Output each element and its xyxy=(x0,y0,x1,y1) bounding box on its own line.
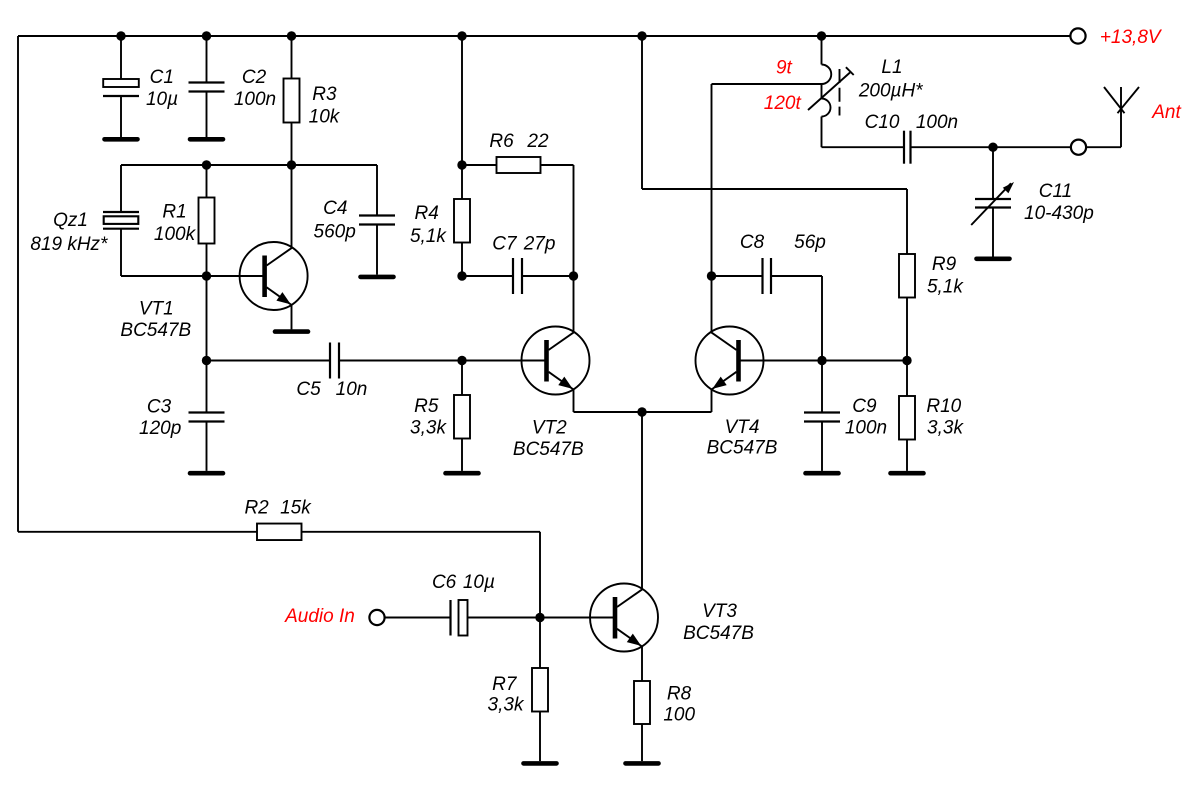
wire xyxy=(120,36,122,79)
resistor R10 xyxy=(899,396,915,440)
wire xyxy=(462,360,547,362)
svg-text:BC547B: BC547B xyxy=(513,439,584,460)
junction xyxy=(457,31,466,40)
label C6 xyxy=(432,572,457,593)
wire xyxy=(712,275,763,277)
label C4 xyxy=(323,198,347,219)
wire xyxy=(17,36,19,532)
svg-text:3,3k: 3,3k xyxy=(927,418,964,439)
wire xyxy=(291,36,293,79)
svg-text:R9: R9 xyxy=(932,254,957,275)
label R1 value xyxy=(154,224,197,245)
svg-text:R1: R1 xyxy=(162,202,186,223)
svg-text:3,3k: 3,3k xyxy=(488,695,525,716)
label R6 xyxy=(489,131,514,152)
wire xyxy=(206,422,208,471)
svg-text:100n: 100n xyxy=(234,89,276,110)
svg-text:C11: C11 xyxy=(1039,181,1072,202)
label C10 xyxy=(865,112,900,133)
junction xyxy=(569,271,578,280)
wire xyxy=(206,244,208,277)
wire xyxy=(906,440,908,471)
junction xyxy=(457,356,466,365)
wire xyxy=(339,360,462,362)
resistor R2 xyxy=(257,524,302,541)
label C1 xyxy=(150,67,174,88)
svg-text:C4: C4 xyxy=(323,198,347,219)
wire xyxy=(573,276,575,332)
resistor R7 xyxy=(532,668,548,712)
label R10 value xyxy=(927,418,964,439)
svg-text:VT3: VT3 xyxy=(702,601,737,622)
wire xyxy=(641,412,643,588)
svg-text:R6: R6 xyxy=(489,131,514,152)
label R7 xyxy=(492,674,518,695)
resistor R9 xyxy=(899,254,915,298)
label C5 value xyxy=(336,379,368,400)
label VT2 type xyxy=(513,439,584,460)
svg-text:100n: 100n xyxy=(845,418,887,439)
wire xyxy=(911,146,1071,148)
label Qz1 value xyxy=(30,234,108,255)
resistor R4 xyxy=(454,199,470,243)
wire xyxy=(120,96,122,137)
svg-text:9t: 9t xyxy=(776,58,793,79)
transistor VT3 BC547B xyxy=(590,584,658,652)
wire xyxy=(376,225,378,275)
junction xyxy=(902,356,911,365)
ground xyxy=(190,471,223,476)
wire xyxy=(574,411,712,413)
label VT2 xyxy=(532,418,567,439)
ground xyxy=(891,471,924,476)
label Audio In xyxy=(284,606,355,627)
label R6 value xyxy=(526,131,549,152)
label R3 xyxy=(312,84,337,105)
svg-text:C2: C2 xyxy=(242,67,267,88)
junction xyxy=(535,613,544,622)
label L1 xyxy=(881,57,902,78)
label C4 value xyxy=(314,222,356,243)
svg-text:200µH*: 200µH* xyxy=(858,81,923,102)
wire xyxy=(541,164,574,166)
svg-text:10µ: 10µ xyxy=(146,89,178,110)
wire xyxy=(573,165,575,276)
wire xyxy=(468,617,616,619)
wire xyxy=(1086,146,1121,148)
svg-text:100n: 100n xyxy=(916,112,958,133)
capacitor C1 (electrolytic) xyxy=(103,79,139,96)
label C8 value xyxy=(794,232,826,253)
ground xyxy=(524,761,557,766)
wire xyxy=(461,243,463,277)
label R7 value xyxy=(488,695,525,716)
label C9 xyxy=(852,396,877,417)
terminal +13.8V xyxy=(1070,28,1085,43)
svg-text:C1: C1 xyxy=(150,67,174,88)
label R2 xyxy=(244,498,269,519)
svg-text:5,1k: 5,1k xyxy=(410,226,447,247)
wire xyxy=(121,164,377,166)
capacitor C3 xyxy=(189,413,225,422)
junction xyxy=(116,31,125,40)
label R1 xyxy=(162,202,186,223)
label VT3 type xyxy=(683,623,754,644)
resistor R5 xyxy=(454,395,470,439)
svg-text:120p: 120p xyxy=(139,418,181,439)
capacitor C6 (electrolytic) xyxy=(451,600,468,636)
label R9 value xyxy=(927,276,964,297)
svg-text:560p: 560p xyxy=(314,222,356,243)
ground xyxy=(626,761,659,766)
transistor VT4 BC547B xyxy=(696,327,764,395)
wire xyxy=(906,189,908,254)
capacitor C5 xyxy=(330,343,339,379)
capacitor C10 xyxy=(904,131,911,164)
wire xyxy=(821,117,823,148)
wire xyxy=(641,646,643,681)
svg-text:BC547B: BC547B xyxy=(120,320,191,341)
wire xyxy=(711,390,713,413)
transistor VT1 BC547B xyxy=(240,242,308,310)
label R5 xyxy=(414,396,439,417)
label VT4 xyxy=(725,417,760,438)
wire xyxy=(642,188,907,190)
label C5 xyxy=(296,379,321,400)
ground xyxy=(446,471,479,476)
label Ant xyxy=(1151,102,1181,123)
junction xyxy=(202,356,211,365)
label C2 xyxy=(242,67,267,88)
svg-text:120t: 120t xyxy=(764,93,802,114)
label C6 value xyxy=(463,572,495,593)
label R5 value xyxy=(410,418,447,439)
junction xyxy=(637,407,646,416)
label VT4 type xyxy=(707,438,778,459)
wire xyxy=(539,618,541,669)
label C3 xyxy=(147,397,172,418)
label L1 value xyxy=(858,81,923,102)
junction xyxy=(707,271,716,280)
label R8 xyxy=(667,684,692,705)
C11 arrow xyxy=(971,182,1014,225)
label R4 xyxy=(415,203,439,224)
label VT3 xyxy=(702,601,737,622)
svg-text:R7: R7 xyxy=(492,674,518,695)
capacitor C2 xyxy=(189,83,225,92)
svg-text:VT1: VT1 xyxy=(139,299,174,320)
resistor R6 xyxy=(497,157,541,173)
junction xyxy=(202,271,211,280)
wire xyxy=(206,165,208,198)
svg-text:5,1k: 5,1k xyxy=(927,276,964,297)
svg-text:10-430p: 10-430p xyxy=(1024,203,1094,224)
svg-text:R5: R5 xyxy=(414,396,439,417)
svg-text:10µ: 10µ xyxy=(463,572,495,593)
crystal Qz1 xyxy=(103,212,139,229)
capacitor C8 xyxy=(763,258,772,294)
svg-text:22: 22 xyxy=(526,131,549,152)
label L1 tap 120t xyxy=(764,93,802,114)
svg-text:Audio In: Audio In xyxy=(284,606,355,627)
svg-text:VT4: VT4 xyxy=(725,417,760,438)
svg-text:L1: L1 xyxy=(881,57,902,78)
wire xyxy=(207,275,265,277)
svg-text:27p: 27p xyxy=(523,233,556,254)
ground xyxy=(806,471,839,476)
svg-text:100: 100 xyxy=(663,705,695,726)
label R2 value xyxy=(280,498,312,519)
wire xyxy=(906,361,908,397)
wire xyxy=(711,276,713,332)
wire xyxy=(206,36,208,83)
ground xyxy=(275,329,308,334)
wire xyxy=(376,165,378,216)
label C7 xyxy=(492,233,518,254)
svg-text:Ant: Ant xyxy=(1151,102,1181,123)
inductor L1 xyxy=(822,65,832,117)
wire xyxy=(121,275,207,277)
resistor R1 xyxy=(199,198,215,244)
wire xyxy=(462,164,497,166)
wire xyxy=(206,276,208,412)
junction xyxy=(202,31,211,40)
wire xyxy=(821,276,823,361)
wire xyxy=(822,146,904,148)
wire xyxy=(461,439,463,471)
wire xyxy=(206,92,208,138)
label L1 tap 9t xyxy=(776,58,793,79)
svg-text:R4: R4 xyxy=(415,203,439,224)
junction xyxy=(202,160,211,169)
svg-text:10n: 10n xyxy=(336,379,368,400)
junction xyxy=(817,356,826,365)
wire xyxy=(461,165,463,199)
L1 adjustable core (dashed) xyxy=(839,69,841,116)
svg-text:15k: 15k xyxy=(280,498,312,519)
junction xyxy=(988,143,997,152)
svg-text:+13,8V: +13,8V xyxy=(1100,27,1163,48)
terminal Audio In xyxy=(369,610,384,625)
wire xyxy=(385,617,451,619)
wire xyxy=(711,84,713,276)
svg-text:10k: 10k xyxy=(309,107,341,128)
label R10 xyxy=(926,396,961,417)
label C2 value xyxy=(234,89,276,110)
label C9 value xyxy=(845,418,887,439)
resistor R8 xyxy=(634,681,650,724)
svg-text:R3: R3 xyxy=(312,84,337,105)
wire xyxy=(461,36,463,165)
wire xyxy=(641,724,643,761)
wire xyxy=(821,361,823,413)
label C11 value xyxy=(1024,203,1094,224)
junction xyxy=(457,271,466,280)
wire xyxy=(821,84,823,99)
label +13,8V xyxy=(1100,27,1163,48)
junction xyxy=(457,160,466,169)
label C10 value xyxy=(916,112,958,133)
wire xyxy=(906,298,908,361)
label C3 value xyxy=(139,418,181,439)
label R8 value xyxy=(663,705,695,726)
ground xyxy=(977,256,1010,261)
label C11 xyxy=(1039,181,1072,202)
wire xyxy=(738,360,908,362)
wire xyxy=(992,147,994,199)
svg-text:R2: R2 xyxy=(244,498,269,519)
svg-text:C6: C6 xyxy=(432,572,457,593)
svg-text:C7: C7 xyxy=(492,233,518,254)
wire xyxy=(120,165,122,212)
wire xyxy=(641,36,643,189)
svg-text:BC547B: BC547B xyxy=(707,438,778,459)
svg-text:Qz1: Qz1 xyxy=(53,210,88,231)
junction xyxy=(637,31,646,40)
terminal Ant xyxy=(1071,140,1086,155)
wire xyxy=(771,275,822,277)
svg-text:R10: R10 xyxy=(926,396,961,417)
wire xyxy=(18,35,1070,37)
svg-text:C10: C10 xyxy=(865,112,900,133)
label C7 value xyxy=(523,233,556,254)
label R4 value xyxy=(410,226,447,247)
junction xyxy=(287,160,296,169)
junction xyxy=(817,31,826,40)
wire xyxy=(120,229,122,276)
svg-text:56p: 56p xyxy=(794,232,826,253)
wire xyxy=(573,390,575,413)
capacitor C7 xyxy=(513,258,522,294)
label R9 xyxy=(932,254,957,275)
ground xyxy=(105,137,138,142)
wire xyxy=(291,123,293,248)
wire xyxy=(522,275,574,277)
ground xyxy=(190,137,223,142)
wire xyxy=(992,208,994,257)
svg-text:R8: R8 xyxy=(667,684,692,705)
wire xyxy=(539,532,541,618)
svg-text:BC547B: BC547B xyxy=(683,623,754,644)
label VT1 type xyxy=(120,320,191,341)
svg-text:VT2: VT2 xyxy=(532,418,567,439)
svg-text:3,3k: 3,3k xyxy=(410,418,447,439)
wire xyxy=(302,531,541,533)
svg-text:C3: C3 xyxy=(147,397,172,418)
wire xyxy=(712,83,822,85)
wire xyxy=(539,712,541,762)
capacitor C11 (variable) xyxy=(975,199,1011,208)
wire xyxy=(821,36,823,65)
svg-text:C8: C8 xyxy=(740,232,765,253)
wire xyxy=(18,531,257,533)
svg-text:819 kHz*: 819 kHz* xyxy=(30,234,108,255)
label VT1 xyxy=(139,299,174,320)
label Qz1 xyxy=(53,210,88,231)
capacitor C4 xyxy=(359,216,395,225)
label R3 value xyxy=(309,107,341,128)
label C1 value xyxy=(146,89,178,110)
wire xyxy=(462,275,513,277)
wire xyxy=(207,360,331,362)
L1 adjust arrow xyxy=(808,67,854,110)
svg-text:C5: C5 xyxy=(296,379,321,400)
svg-text:C9: C9 xyxy=(852,396,877,417)
wire xyxy=(291,305,293,330)
ground xyxy=(361,275,394,280)
antenna xyxy=(1104,87,1139,147)
junction xyxy=(287,31,296,40)
label C8 xyxy=(740,232,765,253)
wire xyxy=(821,422,823,471)
capacitor C9 xyxy=(804,413,840,422)
transistor VT2 BC547B xyxy=(522,327,590,395)
wire xyxy=(461,361,463,396)
svg-text:100k: 100k xyxy=(154,224,197,245)
resistor R3 xyxy=(284,79,300,123)
